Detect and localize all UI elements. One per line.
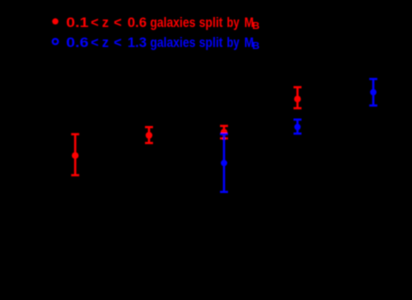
blue data point 3 error bar <box>369 79 377 106</box>
red data point 2 error bar <box>145 127 153 143</box>
svg-text:<: < <box>114 35 122 50</box>
svg-text:z: z <box>102 15 109 30</box>
blue data point 2 error bar <box>294 120 302 134</box>
red data point 4 error bar <box>294 87 302 108</box>
svg-text:by: by <box>227 35 240 50</box>
red data point 1 marker <box>72 152 79 159</box>
svg-text:<: < <box>91 35 99 50</box>
svg-text:galaxies: galaxies <box>150 35 195 50</box>
svg-text:0.1: 0.1 <box>66 15 89 30</box>
svg-text:1.3: 1.3 <box>128 35 148 50</box>
svg-text:<: < <box>114 15 122 30</box>
red data point 3 error bar <box>220 126 228 138</box>
legend marker red filled circle <box>52 18 58 24</box>
svg-text:B: B <box>252 21 259 32</box>
svg-text:0.6: 0.6 <box>66 35 89 50</box>
svg-text:galaxies: galaxies <box>150 15 195 30</box>
svg-text:0.6: 0.6 <box>128 15 148 30</box>
legend marker blue open circle <box>53 39 58 44</box>
legend text line 2 (blue series) <box>66 35 259 52</box>
blue data point 2 marker <box>294 124 300 130</box>
legend text line 1 (red series) <box>66 15 259 32</box>
red data point 2 marker <box>146 132 153 139</box>
blue data point 1 marker <box>221 160 227 166</box>
svg-text:z: z <box>102 35 109 50</box>
svg-text:<: < <box>91 15 99 30</box>
svg-text:by: by <box>227 15 240 30</box>
blue data point 1 error bar <box>220 134 228 192</box>
blue data point 3 marker <box>370 89 376 95</box>
red data point 1 error bar <box>71 134 79 175</box>
svg-text:split: split <box>199 15 223 30</box>
svg-text:split: split <box>199 35 223 50</box>
red data point 4 marker <box>294 96 301 103</box>
red data point 3 marker <box>221 129 228 136</box>
svg-text:B: B <box>252 41 259 52</box>
